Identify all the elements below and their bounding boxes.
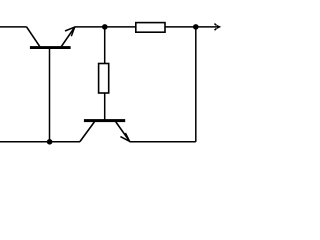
transistor Q2 emitter lead <box>116 122 130 141</box>
transistor Q2 collector lead <box>80 122 95 142</box>
wire from R2 down to Q2 base <box>104 93 106 120</box>
node junction dot bottom <box>47 139 53 145</box>
wire top middle <box>75 26 136 28</box>
transistor Q2 emitter arrowhead <box>120 133 129 141</box>
wire R1 to right node <box>165 26 196 28</box>
resistor R2 (vertical) <box>99 64 109 94</box>
wire from top node down to R2 <box>104 27 106 64</box>
transistor Q1 collector lead <box>27 27 40 47</box>
wire bottom-right <box>129 141 195 143</box>
transistor Q1 base bar <box>30 46 71 49</box>
wire to output <box>196 26 218 28</box>
transistor Q1 emitter lead <box>61 27 74 46</box>
wire bottom-left <box>0 141 80 143</box>
node junction dot top-right <box>193 24 199 30</box>
wire Q1 base down to bottom rail <box>49 49 51 142</box>
transistor Q1 emitter arrowhead <box>65 27 75 36</box>
wire top-left input <box>0 26 27 28</box>
node junction dot top-left <box>102 24 108 30</box>
output arrowhead <box>217 25 221 29</box>
resistor R1 (horizontal) <box>136 23 165 33</box>
wire right vertical <box>195 27 197 142</box>
transistor Q2 base bar <box>84 119 125 122</box>
